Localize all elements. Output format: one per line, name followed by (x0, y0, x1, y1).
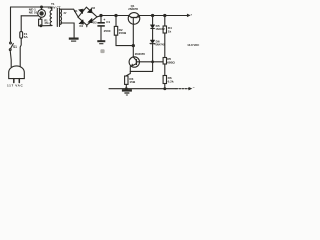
svg-text:+: + (103, 18, 105, 22)
wire plug right prong up (20, 38, 21, 67)
wire primary top drop (50, 7, 52, 9)
label F1 6A (21, 15, 38, 17)
svg-text:2500: 2500 (104, 29, 111, 33)
wire top-left rail (11, 6, 52, 8)
wire secondary top to bridge (61, 9, 78, 17)
wire Q2 emitter down (130, 67, 152, 72)
svg-text:2N3055: 2N3055 (128, 7, 138, 11)
svg-text:NE 51: NE 51 (29, 10, 38, 14)
wire switch to plug left (10, 51, 11, 67)
svg-text:13.8 VDC: 13.8 VDC (187, 43, 199, 47)
diode D1 (upper-left arm) (79, 9, 84, 14)
node bottom R3 (125, 88, 127, 90)
resistor R6 lower right (163, 76, 166, 84)
wire R3 to bottom rail (125, 84, 127, 88)
svg-text:1k: 1k (168, 29, 172, 33)
wire bridge bottom stub (86, 25, 88, 27)
svg-text:D1: D1 (74, 9, 78, 13)
wire bottom rail dashed end (176, 88, 189, 90)
scan stain artifact (100, 49, 104, 53)
node R4 tap (164, 14, 166, 16)
svg-text:680Ω: 680Ω (167, 61, 175, 65)
switch S1 (9, 42, 17, 50)
diode D4 (lower-left arm) (79, 20, 84, 25)
wire bridge output to rail (97, 16, 102, 17)
svg-text:+: + (190, 13, 192, 17)
svg-text:12.6V CT: 12.6V CT (48, 6, 61, 10)
resistor R4 (1k upper right) (163, 16, 166, 58)
svg-text:15Ω: 15Ω (129, 80, 135, 84)
transistor Q2 (129, 57, 139, 67)
resistor R5 (680) (163, 58, 166, 65)
plug P1 body (9, 66, 25, 83)
svg-text:6.2k: 6.2k (168, 80, 174, 84)
ground (output common) (122, 89, 132, 95)
node base junction (132, 45, 134, 47)
node C1 tap (100, 14, 102, 16)
node resistor junction (40, 25, 42, 27)
svg-text:8V: 8V (64, 13, 67, 15)
diode D2 (upper-right arm) (87, 8, 92, 13)
svg-text:C1: C1 (106, 20, 110, 24)
capacitor C1 (97, 16, 104, 41)
wire bottom rail (109, 88, 176, 90)
node zener base junction (152, 61, 154, 63)
transformer T1 secondary (60, 9, 63, 24)
ground (transformer CT) (69, 39, 79, 42)
transformer T1 core (56, 9, 58, 27)
wire R5 to R6 (164, 64, 166, 76)
wire left vertical from rail to switch (10, 7, 12, 42)
svg-text:S1: S1 (13, 45, 17, 49)
diode D3 (lower-right arm) (88, 18, 93, 23)
svg-text:117 VAC: 117 VAC (7, 84, 24, 88)
svg-text:47k: 47k (44, 21, 49, 25)
wire Q1 base down to Q2 (132, 24, 134, 57)
wire R6 to bottom rail (164, 84, 166, 89)
resistor R1 (neon series) (39, 19, 42, 26)
svg-text:150Ω: 150Ω (119, 31, 127, 35)
wire emitter to R3 (126, 71, 130, 75)
resistor R3 (Q2 emitter) (125, 76, 128, 84)
wire primary bottom run (40, 25, 52, 27)
neon lamp NE1 (38, 7, 46, 19)
svg-text:1N4742: 1N4742 (155, 43, 165, 47)
fuse F1 (20, 16, 23, 38)
zener D6 (150, 40, 156, 71)
diode D5 (150, 16, 154, 41)
wire Q2 base to zener node (140, 61, 164, 63)
transformer T1 primary (50, 7, 52, 25)
bridge rectifier diamond (78, 7, 97, 25)
svg-text:2N3055: 2N3055 (135, 52, 146, 56)
output arrow + (186, 15, 189, 17)
wire top rail right (102, 15, 128, 17)
svg-text:D3: D3 (93, 21, 97, 25)
wire secondary bottom to ground line (61, 23, 74, 38)
svg-text:D2: D2 (92, 6, 96, 10)
node bottom R6 (164, 88, 166, 90)
ground (C1) (97, 41, 105, 44)
node D5 tap (152, 14, 154, 16)
svg-text:1N4002: 1N4002 (155, 27, 165, 31)
svg-text:−: − (193, 86, 195, 90)
resistor R2 (Q1 base feed) (114, 16, 117, 46)
svg-text:D4: D4 (80, 24, 84, 28)
wire R2 to base node (116, 45, 133, 47)
node neon tap on rail (41, 6, 43, 8)
node R2 tap (115, 14, 117, 16)
output arrow minus (189, 88, 191, 90)
transistor Q1 (128, 13, 140, 25)
